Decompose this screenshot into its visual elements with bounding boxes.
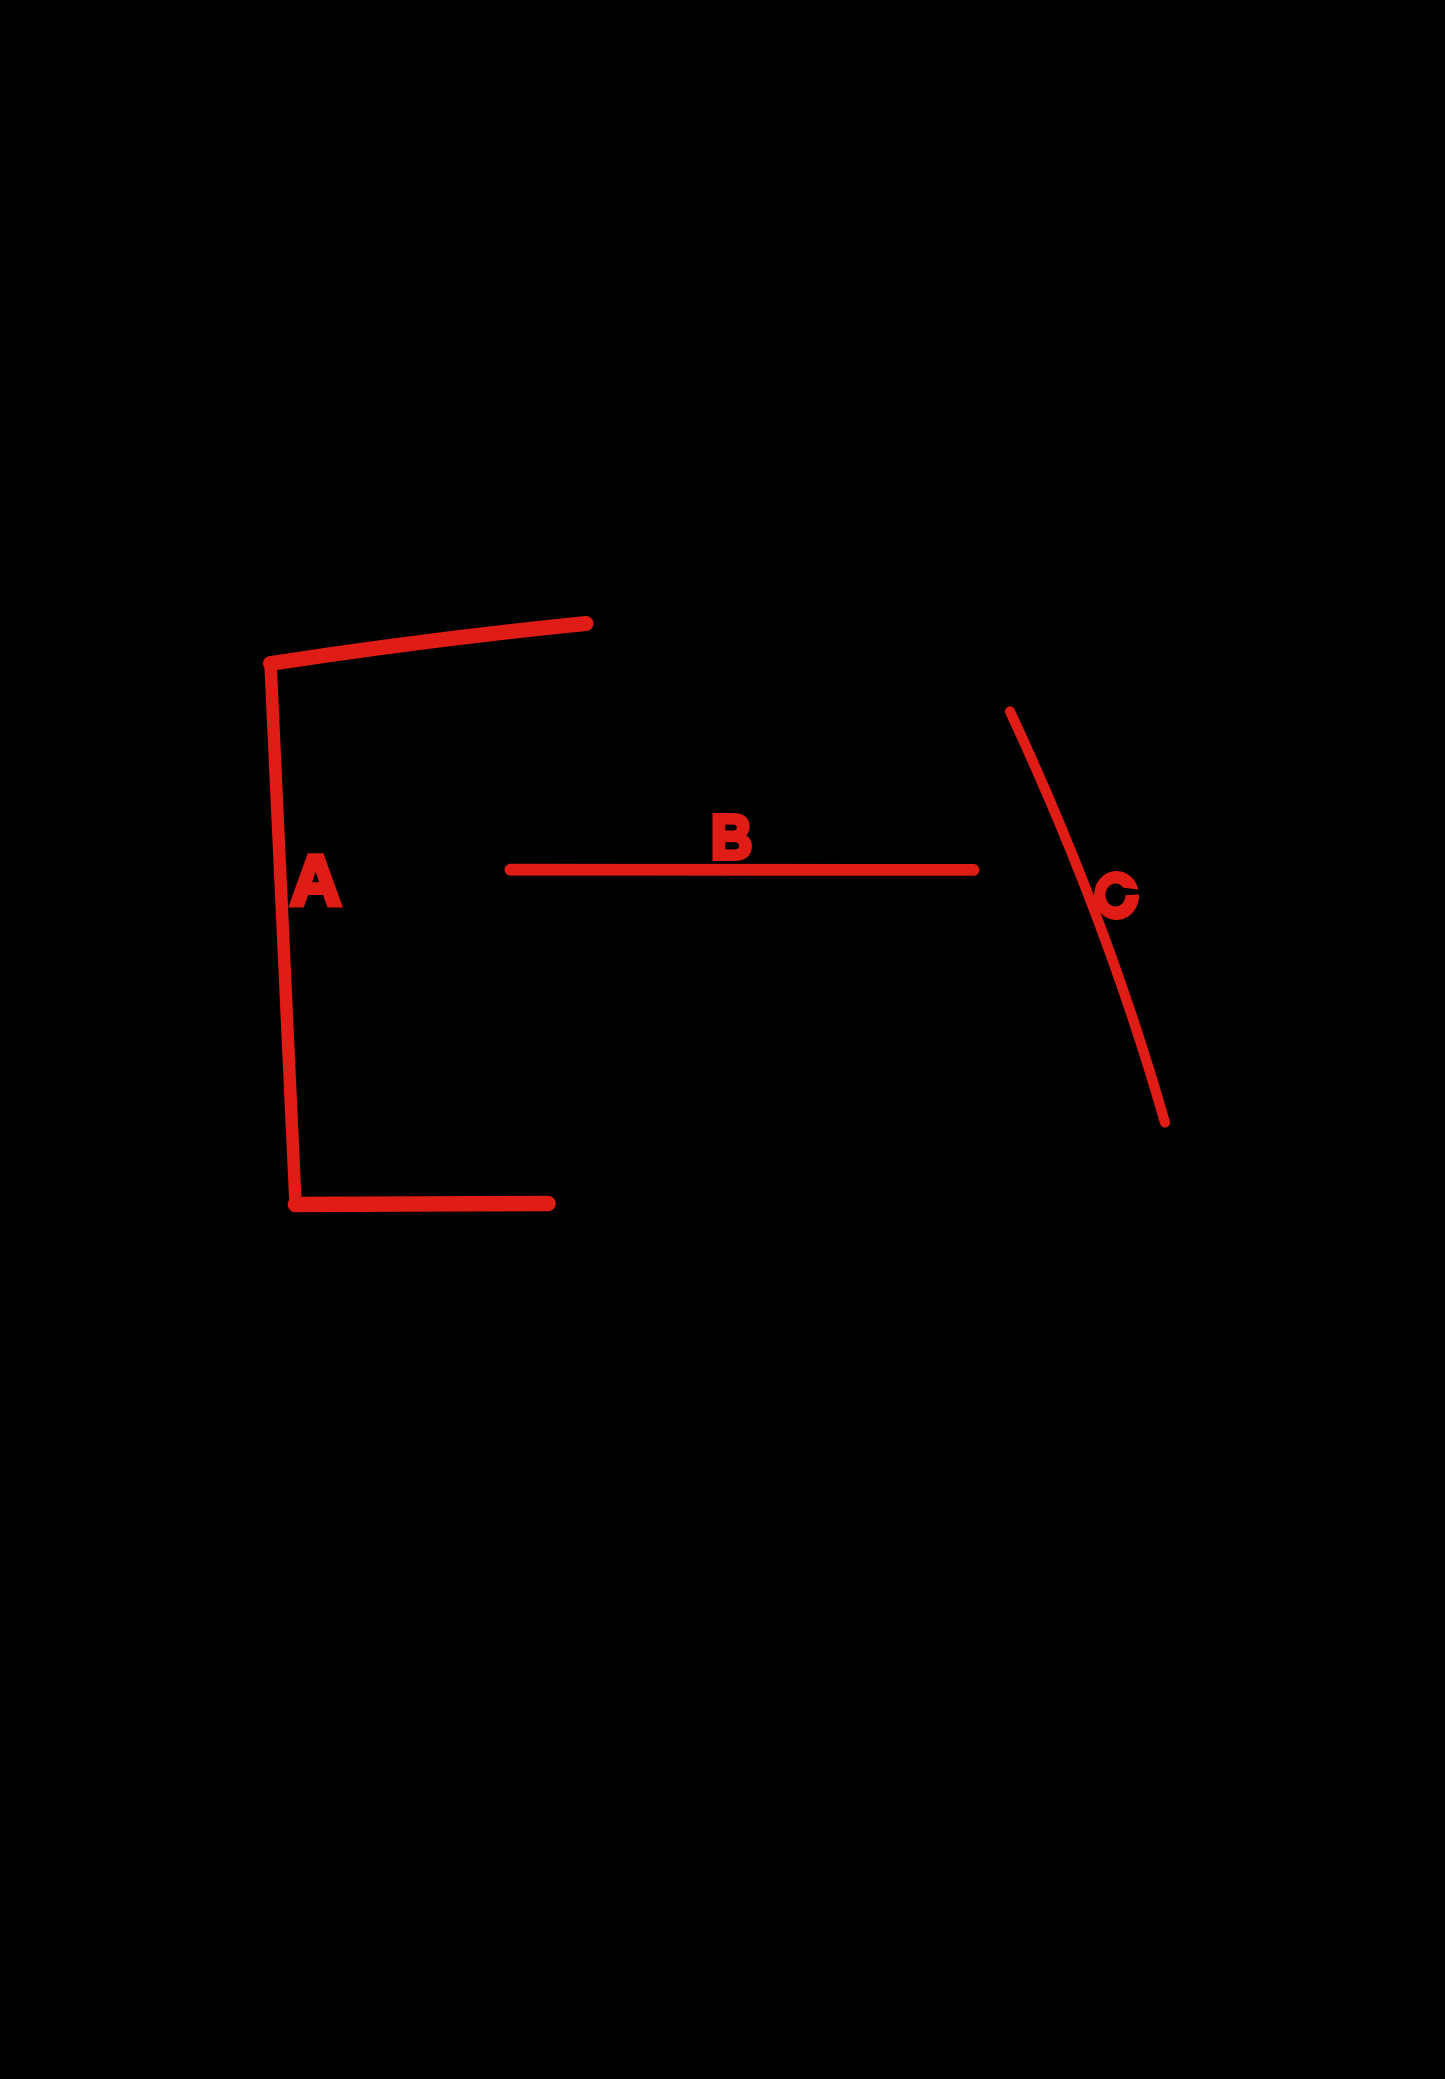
line B bbox=[511, 864, 974, 876]
label B bbox=[711, 802, 752, 872]
label C bbox=[1094, 871, 1146, 920]
svg-text:A: A bbox=[290, 842, 341, 921]
bracket A top stroke bbox=[271, 624, 587, 664]
bracket A bottom stroke bbox=[296, 1204, 549, 1205]
label A bbox=[290, 842, 341, 921]
svg-text:B: B bbox=[711, 802, 752, 872]
line C bbox=[1010, 712, 1165, 1123]
bracket A vertical stroke bbox=[271, 664, 296, 1204]
